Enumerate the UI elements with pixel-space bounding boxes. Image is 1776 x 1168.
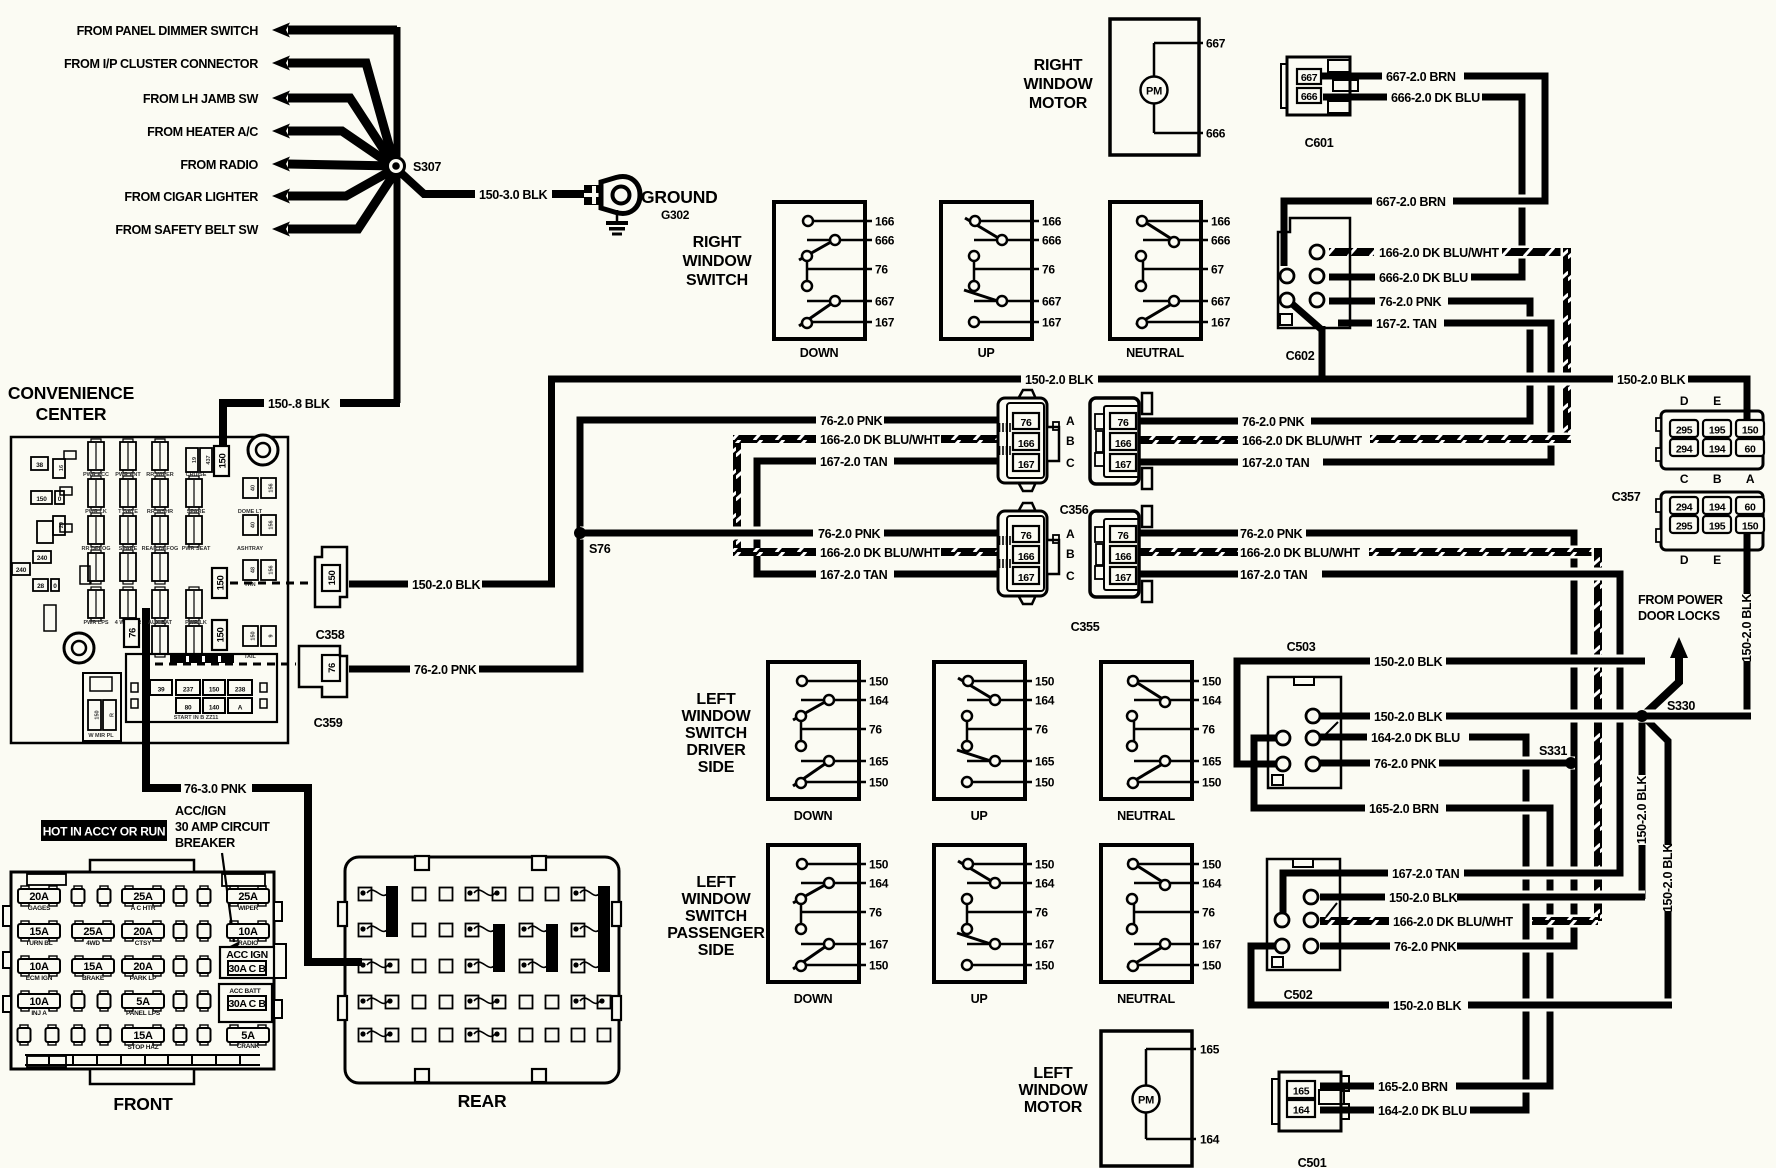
rear box side notches <box>338 902 347 926</box>
C503 diagonal detail <box>1324 722 1338 736</box>
rear grid row1 <box>359 888 372 901</box>
svg-text:GROUND: GROUND <box>641 187 718 207</box>
C357 upper cavity 195 <box>1703 420 1731 437</box>
svg-text:666: 666 <box>1301 91 1318 103</box>
front fuses row2 <box>18 924 60 938</box>
front fuses row4 <box>18 994 60 1008</box>
cc fuse 437 <box>200 448 212 472</box>
svg-text:9: 9 <box>269 634 275 637</box>
switch box passenger up <box>934 845 1025 982</box>
svg-text:80: 80 <box>185 705 192 712</box>
svg-text:HOT IN ACCY OR RUN: HOT IN ACCY OR RUN <box>43 825 166 839</box>
pin line 150 passenger down <box>801 964 866 967</box>
svg-text:165: 165 <box>1202 755 1222 769</box>
svg-text:150-2.0 BLK: 150-2.0 BLK <box>1374 655 1442 669</box>
svg-text:164-2.0 DK BLU: 164-2.0 DK BLU <box>1378 1104 1467 1118</box>
svg-text:150: 150 <box>1035 776 1055 790</box>
svg-text:164: 164 <box>869 877 889 891</box>
switch box passenger neutral <box>1101 845 1192 982</box>
svg-text:240: 240 <box>37 555 48 562</box>
svg-text:667: 667 <box>1206 37 1226 51</box>
wire 666 C602 stub <box>1329 274 1375 281</box>
svg-text:167-2.0 TAN: 167-2.0 TAN <box>820 568 888 582</box>
pin line 165 driver down <box>801 760 866 763</box>
svg-text:76-2.0 PNK: 76-2.0 PNK <box>1242 415 1305 429</box>
wire 164 C501 stub <box>1320 1107 1374 1114</box>
svg-text:15A: 15A <box>83 961 103 973</box>
wire from safety belt switch <box>288 171 396 229</box>
wire 166 hatched C355 to C502 <box>1369 546 1598 559</box>
svg-text:165: 165 <box>1200 1043 1220 1057</box>
pin line 164 passenger neutral <box>1134 882 1199 885</box>
wire 150 C502 bottom elbow <box>1251 946 1389 1005</box>
svg-text:C501: C501 <box>1298 1156 1327 1168</box>
connector C355 right cavity 166 <box>1110 546 1136 563</box>
svg-text:LEFT: LEFT <box>696 691 736 708</box>
pin line 150 driver neutral <box>1134 680 1199 683</box>
left window motor box <box>1101 1031 1192 1166</box>
switch common bar right neutral <box>1142 256 1145 286</box>
wire 150 C357 drop upper segment <box>1744 533 1751 594</box>
svg-text:76-2.0 PNK: 76-2.0 PNK <box>1240 527 1303 541</box>
svg-text:30A C B: 30A C B <box>228 998 266 1010</box>
connector C356 right cavity 167 <box>1110 454 1136 471</box>
svg-text:238: 238 <box>235 687 246 694</box>
wire from power door locks arrow shaft <box>1646 652 1679 713</box>
wire 167 C502 internal and stub <box>1283 873 1349 914</box>
svg-text:164: 164 <box>1293 1105 1310 1117</box>
convenience center mounting ear bottom left <box>64 633 94 663</box>
svg-text:SPARE: SPARE <box>119 546 138 552</box>
pin line 164 passenger down <box>801 882 866 885</box>
cc fuse 150 top <box>214 446 229 476</box>
switch contacts driver neutral <box>1128 677 1169 703</box>
pin line 167 right neutral <box>1143 321 1208 324</box>
svg-text:150-2.0 BLK: 150-2.0 BLK <box>1740 594 1754 662</box>
pin line 164 driver up <box>967 699 1032 702</box>
switch box right down <box>774 202 865 339</box>
front box bottom strip <box>25 1054 260 1056</box>
svg-text:10A: 10A <box>29 961 49 973</box>
svg-text:W MIR PL: W MIR PL <box>88 733 114 739</box>
wire 150 S330 diagonal drop lower <box>1665 911 1672 1007</box>
wire 150 S330 drop segment a <box>1639 719 1646 775</box>
switch common bar right up <box>973 256 976 286</box>
svg-text:28: 28 <box>37 583 44 590</box>
switch contacts passenger neutral <box>1128 860 1169 886</box>
svg-text:166: 166 <box>1042 215 1062 229</box>
svg-text:166-2.0 DK BLU/WHT: 166-2.0 DK BLU/WHT <box>1379 246 1499 260</box>
svg-text:0: 0 <box>58 496 62 503</box>
rear grid row3 <box>359 960 372 973</box>
svg-text:167-2.0 TAN: 167-2.0 TAN <box>1240 568 1308 582</box>
svg-text:CENTER: CENTER <box>36 404 107 424</box>
pin line 76 right down <box>807 268 872 271</box>
svg-text:FROM LH JAMB SW: FROM LH JAMB SW <box>143 92 259 106</box>
wire 150 C503 upper elbow <box>1237 661 1370 764</box>
switch common bar driver down <box>800 716 803 746</box>
svg-text:DOWN: DOWN <box>794 809 833 823</box>
pin line 666 right neutral <box>1143 239 1208 242</box>
svg-text:BRAKE: BRAKE <box>82 975 105 982</box>
svg-text:NEUTRAL: NEUTRAL <box>1117 992 1175 1006</box>
svg-text:166: 166 <box>1115 438 1132 450</box>
svg-text:150: 150 <box>36 496 47 503</box>
pin line 76 passenger up <box>967 911 1032 914</box>
svg-text:167: 167 <box>1018 459 1035 471</box>
svg-text:B: B <box>1713 472 1722 486</box>
arrow 5 <box>272 157 290 172</box>
wire 150-2.0 BLK C358 left segment <box>349 581 408 588</box>
switch box right neutral <box>1110 202 1201 339</box>
switch common bar passenger neutral <box>1133 899 1136 929</box>
svg-text:167: 167 <box>1115 572 1132 584</box>
svg-text:CONVENIENCE: CONVENIENCE <box>8 383 134 403</box>
svg-text:150-2.0 BLK: 150-2.0 BLK <box>1389 891 1457 905</box>
svg-text:667: 667 <box>1301 72 1318 84</box>
svg-text:RR DEFOG: RR DEFOG <box>81 546 110 552</box>
splice S307 <box>388 158 405 175</box>
svg-text:ACC/IGN: ACC/IGN <box>175 804 226 818</box>
connector C356 left cavity 167 <box>1013 454 1039 471</box>
svg-text:SIDE: SIDE <box>698 759 735 776</box>
svg-text:FROM POWER: FROM POWER <box>1638 593 1723 607</box>
connector C502 <box>1267 859 1340 970</box>
cc relay outlines <box>60 487 72 495</box>
pin line 164 driver neutral <box>1134 699 1199 702</box>
svg-text:FROM SAFETY BELT SW: FROM SAFETY BELT SW <box>115 223 258 237</box>
connector C355 left cavity 167 <box>1013 567 1039 584</box>
svg-text:NEUTRAL: NEUTRAL <box>1126 346 1184 360</box>
svg-text:167: 167 <box>875 316 895 330</box>
pin line 76 passenger neutral <box>1134 911 1199 914</box>
cc fuse 38 <box>31 457 48 470</box>
wire 76 row2 left of label <box>580 527 813 540</box>
pin line 167 passenger up <box>967 943 1032 946</box>
splice S330 <box>1636 710 1648 722</box>
svg-text:FROM RADIO: FROM RADIO <box>180 158 258 172</box>
connector C355 left cavity 76 <box>1013 526 1039 542</box>
wire 150 C502 bottom right segment <box>1468 999 1672 1012</box>
svg-text:WINDOW: WINDOW <box>1023 76 1093 93</box>
connector C358 <box>315 547 347 607</box>
svg-text:A C HTR: A C HTR <box>131 905 156 912</box>
pin line 150 passenger up <box>967 863 1032 866</box>
rear grid bars <box>386 886 398 937</box>
pin line 167 right down <box>807 321 872 324</box>
svg-text:667: 667 <box>875 295 895 309</box>
wire 167 C602 to C356 row1 elbow <box>1323 323 1551 462</box>
svg-text:PM: PM <box>1138 1095 1154 1107</box>
svg-text:150-2.0 BLK: 150-2.0 BLK <box>412 578 480 592</box>
wire 150-3.0 BLK to ground <box>400 172 475 194</box>
svg-text:666: 666 <box>1042 234 1062 248</box>
pin line 165 driver neutral <box>1134 760 1199 763</box>
svg-text:150: 150 <box>1202 959 1222 973</box>
C357 upper cavity 295 <box>1670 420 1698 437</box>
pin line 667 right neutral <box>1143 300 1208 303</box>
svg-text:165-2.0 BRN: 165-2.0 BRN <box>1369 802 1439 816</box>
cc fuse 150 lower <box>212 620 227 650</box>
svg-text:ASHTRAY: ASHTRAY <box>237 546 263 552</box>
wire 150-.8 BLK from trunk to convenience center <box>340 399 400 407</box>
pin line 67 right neutral <box>1143 268 1208 271</box>
switch contacts right neutral <box>1137 217 1178 243</box>
svg-text:SWITCH: SWITCH <box>685 908 747 925</box>
svg-text:DOME LT: DOME LT <box>238 509 263 515</box>
svg-text:S76: S76 <box>589 542 611 556</box>
svg-text:0: 0 <box>53 583 57 590</box>
C357 lower cavity 195 <box>1703 516 1731 533</box>
cc pair 48 156 <box>243 560 258 580</box>
svg-text:AUX BAT: AUX BAT <box>148 620 173 626</box>
svg-text:S330: S330 <box>1667 699 1695 713</box>
svg-text:150: 150 <box>209 687 220 694</box>
pin line 164 driver down <box>801 699 866 702</box>
wire 167 C355 to C502 long elbow <box>1322 574 1620 873</box>
C357 lower cavity 150 <box>1736 516 1764 533</box>
wire 76 row1 stub right of connector <box>1140 418 1238 425</box>
front fuses row1 <box>18 889 60 903</box>
arrowhead from power door locks <box>1670 637 1688 658</box>
svg-text:C601: C601 <box>1305 136 1334 150</box>
svg-text:C: C <box>1680 472 1689 486</box>
pin line 666 right down <box>807 239 872 242</box>
C357 lower cavity 294 <box>1670 497 1698 514</box>
cc fuse 76 <box>124 619 139 647</box>
switch contacts driver up <box>958 678 998 702</box>
wire 166 C502 stub hatched <box>1320 917 1389 925</box>
svg-text:166: 166 <box>1018 551 1035 563</box>
svg-text:START IN B ZZ11: START IN B ZZ11 <box>174 715 219 721</box>
svg-text:76-2.0 PNK: 76-2.0 PNK <box>414 663 477 677</box>
svg-text:150: 150 <box>251 631 257 640</box>
C503 pins <box>1306 709 1320 723</box>
connector C356 right female <box>1090 398 1139 484</box>
breaker pointer line <box>222 853 234 942</box>
splice S76 <box>574 527 586 539</box>
arrow 2 <box>272 56 290 71</box>
svg-text:40: 40 <box>251 522 257 528</box>
svg-text:REAR: REAR <box>458 1091 507 1111</box>
svg-text:150: 150 <box>869 776 889 790</box>
svg-text:167: 167 <box>1202 938 1222 952</box>
svg-text:150-2.0 BLK: 150-2.0 BLK <box>1661 844 1675 912</box>
svg-text:RR WSHR: RR WSHR <box>147 509 173 515</box>
svg-text:167: 167 <box>1115 459 1132 471</box>
wire from heater A/C <box>288 131 393 166</box>
svg-text:76: 76 <box>869 906 882 920</box>
wire 150 C503 pin stub S330 row left <box>1320 713 1370 720</box>
connector C357 lower <box>1661 492 1763 550</box>
svg-text:76: 76 <box>1118 417 1129 429</box>
svg-text:20A: 20A <box>29 891 49 903</box>
svg-text:150: 150 <box>1035 858 1055 872</box>
svg-text:166-2.0 DK BLU/WHT: 166-2.0 DK BLU/WHT <box>820 546 940 560</box>
wire 76-2.0 PNK C359 left segment <box>349 666 410 673</box>
svg-text:150: 150 <box>216 576 227 591</box>
svg-text:E: E <box>1713 394 1721 408</box>
svg-text:C: C <box>1066 569 1075 583</box>
wire from radio <box>288 164 396 166</box>
svg-text:GAGES: GAGES <box>28 905 51 912</box>
wire from I/P cluster connector <box>288 63 394 163</box>
svg-text:PWR LPS: PWR LPS <box>83 620 108 626</box>
svg-text:76: 76 <box>1202 906 1215 920</box>
svg-text:150: 150 <box>327 571 338 586</box>
wire 76 C602 stub <box>1329 298 1375 305</box>
wire 150 S330 row right <box>1641 710 1751 723</box>
connector C357 upper <box>1661 411 1763 469</box>
svg-text:166-2.0 DK BLU/WHT: 166-2.0 DK BLU/WHT <box>820 433 940 447</box>
svg-text:150: 150 <box>869 858 889 872</box>
svg-text:WINDOW: WINDOW <box>682 253 752 270</box>
svg-text:666: 666 <box>875 234 895 248</box>
svg-text:WINDOW: WINDOW <box>681 708 751 725</box>
wire 76 row2 stub <box>1140 530 1238 537</box>
svg-text:T GATE: T GATE <box>118 509 138 515</box>
svg-text:30A C B: 30A C B <box>228 963 266 975</box>
connector C356 left index tab <box>1047 427 1059 461</box>
connector C356 left male <box>1018 390 1036 399</box>
C357 upper cavity 194 <box>1703 439 1731 456</box>
svg-text:5A: 5A <box>136 996 150 1008</box>
pin line 166 right up <box>974 220 1039 223</box>
C501 cavity 165 <box>1287 1081 1315 1098</box>
svg-text:194: 194 <box>1709 444 1726 456</box>
svg-text:150: 150 <box>1202 675 1222 689</box>
svg-text:76: 76 <box>1042 263 1055 277</box>
subpanel fuse 150 <box>203 680 225 695</box>
svg-text:10A: 10A <box>29 996 49 1008</box>
svg-text:UP: UP <box>971 992 988 1006</box>
svg-text:666: 666 <box>1211 234 1231 248</box>
arrow 6 <box>272 189 290 204</box>
wire 166 hatched bridge row1-row2 <box>733 435 741 556</box>
acc batt breaker <box>219 984 272 1022</box>
pin line 150 driver up <box>967 680 1032 683</box>
svg-text:C356: C356 <box>1060 503 1089 517</box>
C502 pins <box>1304 890 1318 904</box>
svg-text:PWR ANT: PWR ANT <box>115 472 141 478</box>
svg-text:667: 667 <box>1042 295 1062 309</box>
connector C601 <box>1287 57 1350 115</box>
svg-text:150-3.0 BLK: 150-3.0 BLK <box>479 188 547 202</box>
switch box driver up <box>934 662 1025 799</box>
cc bottom-left connector <box>83 673 121 741</box>
svg-text:BREAKER: BREAKER <box>175 836 235 850</box>
switch box passenger down <box>768 845 859 982</box>
svg-text:RR WIPER: RR WIPER <box>146 472 174 478</box>
svg-text:UP: UP <box>971 809 988 823</box>
connector C355 right cavity 76 <box>1110 526 1136 542</box>
svg-text:DOWN: DOWN <box>800 346 839 360</box>
switch common bar passenger down <box>800 899 803 929</box>
C357 lower cavity 295 <box>1670 516 1698 533</box>
arrow 1 <box>272 23 290 38</box>
wire 166 row2 stub hatched <box>1140 548 1238 556</box>
svg-text:25A: 25A <box>83 926 103 938</box>
svg-text:76: 76 <box>869 723 882 737</box>
switch contacts passenger down <box>793 881 832 903</box>
svg-text:140: 140 <box>209 705 220 712</box>
cc lower subpanel <box>126 654 277 722</box>
svg-text:150: 150 <box>218 454 229 469</box>
svg-text:195: 195 <box>1709 425 1726 437</box>
svg-text:PANEL LPS: PANEL LPS <box>126 1010 161 1017</box>
svg-text:INJ A: INJ A <box>31 1010 47 1017</box>
svg-text:RIGHT: RIGHT <box>1034 57 1083 74</box>
svg-text:165: 165 <box>1293 1086 1310 1098</box>
svg-text:60: 60 <box>1745 502 1756 514</box>
wire S76 riser to row1 76 wire <box>580 420 816 533</box>
switch box driver neutral <box>1101 662 1192 799</box>
svg-text:15A: 15A <box>133 1030 153 1042</box>
svg-text:150-2.0 BLK: 150-2.0 BLK <box>1025 373 1093 387</box>
svg-text:76: 76 <box>1035 906 1048 920</box>
convenience center mounting ear top right <box>248 435 278 465</box>
svg-text:25A: 25A <box>238 891 258 903</box>
svg-text:165: 165 <box>1035 755 1055 769</box>
svg-text:150: 150 <box>1742 521 1759 533</box>
svg-text:156: 156 <box>269 520 275 529</box>
connector C355 right cavity 167 <box>1110 567 1136 584</box>
svg-text:TURN BL: TURN BL <box>25 940 52 947</box>
svg-text:10A: 10A <box>238 926 258 938</box>
svg-text:S307: S307 <box>413 160 441 174</box>
svg-text:ECM IGN: ECM IGN <box>26 975 53 982</box>
svg-text:20A: 20A <box>133 961 153 973</box>
svg-text:C358: C358 <box>316 628 345 642</box>
svg-text:165-2.0 BRN: 165-2.0 BRN <box>1378 1080 1448 1094</box>
svg-text:76: 76 <box>128 628 139 638</box>
wire 150 S330 diagonal drop <box>1645 718 1668 845</box>
right window motor box <box>1110 19 1199 155</box>
svg-text:167: 167 <box>869 938 889 952</box>
cc fuse 150 left <box>31 491 52 504</box>
C602 bottom-left key <box>1280 314 1292 325</box>
svg-text:16: 16 <box>59 465 65 471</box>
svg-text:166-2.0 DK BLU/WHT: 166-2.0 DK BLU/WHT <box>1240 546 1360 560</box>
svg-text:SPARE: SPARE <box>187 509 206 515</box>
pin line 166 right neutral <box>1143 220 1208 223</box>
svg-text:167: 167 <box>1211 316 1231 330</box>
switch common bar passenger up <box>966 899 969 929</box>
switch contacts right up <box>965 218 1005 242</box>
wire 167 row1 right of label <box>894 458 1000 465</box>
svg-text:150: 150 <box>1742 425 1759 437</box>
svg-text:166: 166 <box>1211 215 1231 229</box>
wire 166 row1 right hatched <box>941 435 1000 443</box>
wire 150 bus main section <box>1098 373 1613 386</box>
switch contacts right down <box>799 238 838 260</box>
svg-text:DOOR LOCKS: DOOR LOCKS <box>1638 609 1720 623</box>
arrow 3 <box>272 91 290 106</box>
svg-text:294: 294 <box>1676 502 1693 514</box>
svg-text:150: 150 <box>216 628 227 643</box>
switch contacts passenger up <box>958 861 998 885</box>
svg-text:666-2.0 DK BLU: 666-2.0 DK BLU <box>1391 91 1480 105</box>
wire 167 row2 right of label <box>894 571 1000 578</box>
front fuse box body <box>11 872 274 1069</box>
svg-text:167-2.0 TAN: 167-2.0 TAN <box>1242 456 1310 470</box>
svg-text:A: A <box>1066 527 1075 541</box>
C501 cavity 164 <box>1287 1100 1315 1117</box>
svg-text:STOP HAZ: STOP HAZ <box>127 1044 158 1051</box>
svg-text:PARK LP: PARK LP <box>130 975 158 982</box>
svg-text:240: 240 <box>16 567 27 574</box>
svg-text:150-2.0 BLK: 150-2.0 BLK <box>1635 776 1649 844</box>
